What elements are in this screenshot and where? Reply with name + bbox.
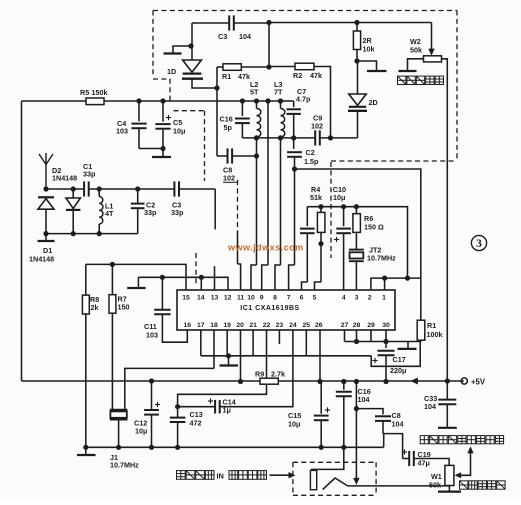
wire R2 right lead xyxy=(314,67,331,138)
potentiometer W1 xyxy=(445,465,454,485)
svg-text:17: 17 xyxy=(197,322,205,329)
jack sleeve contact xyxy=(310,470,316,489)
node C8 branch xyxy=(354,406,359,411)
wire R4 top lead xyxy=(320,207,322,213)
wire R6 bottom lead xyxy=(355,232,357,249)
wire R7 bottom lead xyxy=(111,313,113,410)
wire C3 right xyxy=(179,188,215,190)
resistor R8 xyxy=(82,295,89,314)
wire R8 top lead xyxy=(85,264,87,295)
wire gnd tie staircase xyxy=(371,342,420,367)
wire IF node line xyxy=(242,137,315,139)
wire pin2 feed xyxy=(371,278,421,290)
node ant-D1 xyxy=(43,186,48,191)
label volume potentiometer xyxy=(460,481,506,489)
svg-text:29: 29 xyxy=(367,322,375,329)
svg-text:C2: C2 xyxy=(306,148,315,157)
node pin1 xyxy=(382,276,387,281)
ground W1 xyxy=(438,491,461,493)
wire C1 right xyxy=(89,188,175,190)
wire C8 branch xyxy=(356,409,383,415)
ground C33 xyxy=(438,427,457,429)
resistor R2 47k xyxy=(295,63,314,69)
node pin20-5V xyxy=(238,379,243,384)
wire pin14-12 net xyxy=(138,277,228,290)
node D1 gnd xyxy=(43,231,48,236)
wire C5 top lead xyxy=(162,101,164,122)
svg-text:100k: 100k xyxy=(427,330,443,339)
capacitor C5 xyxy=(155,124,170,129)
capacitor C15 xyxy=(314,416,329,421)
wire rail gnd stub xyxy=(85,447,87,454)
inductor L1 xyxy=(99,197,103,225)
capacitor C16 104 xyxy=(336,392,352,397)
wire pin17 stub xyxy=(200,330,202,356)
plus C19 xyxy=(402,449,407,454)
wire C10 top lead xyxy=(343,207,345,227)
wire pin22-C13 xyxy=(178,330,267,407)
wire mid column top xyxy=(267,101,269,138)
node C8-L2 xyxy=(254,153,259,158)
wire C19 right lead xyxy=(414,459,449,466)
wire C14 left lead xyxy=(178,406,216,408)
node gnd tie xyxy=(226,353,231,358)
ground C4C5 xyxy=(152,156,171,158)
wire gnd tie xyxy=(201,355,371,357)
svg-text:10k: 10k xyxy=(363,45,375,54)
wire 2D top lead xyxy=(357,61,359,94)
wire C9 right lead xyxy=(320,137,358,139)
node R1-R2 xyxy=(266,64,271,69)
wire C19 left lead xyxy=(403,458,410,460)
arrow W1 wiper xyxy=(455,472,462,478)
wire open hook stub xyxy=(137,277,139,287)
resistor R5 xyxy=(86,98,104,105)
svg-text:104: 104 xyxy=(392,420,404,429)
arrow to audio amp xyxy=(467,446,473,453)
node R4 bottom xyxy=(318,241,323,246)
wire W2 left lead xyxy=(408,59,424,70)
crystal J1 xyxy=(110,410,128,420)
svg-text:21: 21 xyxy=(249,322,257,329)
svg-text:5p: 5p xyxy=(224,123,233,132)
svg-text:R1: R1 xyxy=(222,72,231,81)
wire mid column xyxy=(267,138,269,265)
varactor 2D plate xyxy=(348,110,367,112)
capacitor C13 xyxy=(170,418,186,422)
wire W1 bottom lead xyxy=(448,486,450,492)
capacitor at pin6 xyxy=(300,229,315,234)
wire R6 top lead xyxy=(355,207,357,214)
dashed box1 left jog xyxy=(153,79,170,101)
plus C17 xyxy=(372,358,377,363)
svg-text:R9: R9 xyxy=(255,370,264,379)
node C16b top xyxy=(341,379,346,384)
wire pin23 stub xyxy=(278,330,280,344)
wire audio column xyxy=(355,382,357,409)
wire pin13 stub xyxy=(214,266,216,290)
wire 2D bottom lead xyxy=(357,111,359,138)
wire R1 100k bottom lead xyxy=(420,340,422,341)
node L1 bottom xyxy=(97,231,102,236)
inductor L2 xyxy=(257,108,261,137)
capacitor C14 xyxy=(215,400,220,414)
node C3-2R rail xyxy=(266,20,271,25)
wire C16 left column xyxy=(237,231,239,264)
wire C3 left lead xyxy=(192,22,229,24)
wire top rail xyxy=(104,100,281,102)
node 2R-2D xyxy=(354,58,359,63)
wire pins2730 tie xyxy=(345,341,422,343)
ground tie xyxy=(220,364,239,366)
wire C13 top lead xyxy=(177,407,179,418)
wire pin8 jog xyxy=(275,265,281,290)
svg-text:7T: 7T xyxy=(274,88,283,97)
wire pin7 column xyxy=(294,169,296,265)
node D2 bottom xyxy=(71,231,76,236)
wire C5 bottom lead xyxy=(162,129,164,149)
dashed box1 top edge xyxy=(153,10,457,12)
node C11 top xyxy=(160,275,165,280)
wire D1 bottom lead xyxy=(45,209,47,233)
node rail gnd xyxy=(83,445,88,450)
node J1 gnd xyxy=(116,445,121,450)
node rail-mid xyxy=(265,98,270,103)
dashed box1 bottom edge xyxy=(331,160,457,162)
svg-text:1.5p: 1.5p xyxy=(304,157,319,166)
capacitor C11 xyxy=(154,310,170,315)
ground main xyxy=(77,454,96,456)
svg-text:4T: 4T xyxy=(105,209,114,218)
node L2 bottom xyxy=(254,135,259,140)
wire osc top rail xyxy=(269,22,432,24)
svg-text:24: 24 xyxy=(289,322,297,329)
wire D2 bottom lead xyxy=(72,211,74,234)
ground D1 xyxy=(38,240,55,242)
node L3 bottom xyxy=(278,135,283,140)
node C12 gnd xyxy=(149,445,154,450)
svg-text:33p: 33p xyxy=(144,208,157,217)
svg-text:5: 5 xyxy=(313,295,317,302)
varactor 1D plate xyxy=(182,77,203,79)
plus C15 xyxy=(325,407,330,412)
arrow jack contact xyxy=(353,478,359,485)
svg-text:10.7MHz: 10.7MHz xyxy=(367,254,396,263)
svg-text:1D: 1D xyxy=(167,67,176,76)
wire cap6 bottom lead xyxy=(306,233,308,282)
wire C8 bottom lead xyxy=(382,421,384,434)
svg-text:102: 102 xyxy=(223,174,235,183)
wire J1 bottom lead xyxy=(118,420,120,448)
svg-text:33p: 33p xyxy=(83,170,96,179)
wire L3 column xyxy=(280,138,282,265)
svg-text:27: 27 xyxy=(341,322,349,329)
wire pin24-C14 xyxy=(220,330,293,407)
svg-text:1μ: 1μ xyxy=(223,406,231,415)
svg-text:1: 1 xyxy=(382,295,386,302)
wire pin28 stub xyxy=(356,330,358,342)
wire C16b bottom lead xyxy=(343,396,345,447)
arrow 5V flow xyxy=(411,378,418,385)
node pin30 xyxy=(383,339,388,344)
open terminal 2R xyxy=(367,70,387,72)
resistor R6 xyxy=(353,214,361,233)
arrow W2 wiper xyxy=(428,49,434,56)
svg-text:33p: 33p xyxy=(171,208,184,217)
svg-text:2D: 2D xyxy=(369,98,378,107)
node rail-C4 xyxy=(136,98,141,103)
capacitor C8 104 xyxy=(375,416,391,421)
capacitor C4 xyxy=(131,124,146,129)
wire C4 bottom lead xyxy=(138,128,140,148)
wire jack sleeve feed xyxy=(311,447,344,469)
diode D2 xyxy=(66,198,80,210)
wire C11 to pin16 xyxy=(162,314,187,342)
wire tie gnd stub xyxy=(407,342,409,349)
wire C8 left lead xyxy=(217,155,227,157)
wire audio column lower xyxy=(355,409,357,479)
wire pin30 stub xyxy=(385,330,387,342)
svg-text:7: 7 xyxy=(287,295,291,302)
dashed box2 right edge xyxy=(330,162,332,258)
node pin14 xyxy=(199,275,204,280)
wire C12 bottom lead xyxy=(151,415,153,448)
svg-text:13: 13 xyxy=(211,295,219,302)
wire D2 top lead xyxy=(72,189,74,198)
open terminal 1D xyxy=(164,52,182,54)
dashed box2 left edge xyxy=(204,111,206,181)
svg-text:+5V: +5V xyxy=(471,377,486,386)
wire C15 top lead xyxy=(320,382,322,414)
wire pin10 jog xyxy=(251,265,257,290)
wire pin27 stub xyxy=(344,330,346,342)
wire R7 top lead xyxy=(111,264,113,294)
potentiometer W2 xyxy=(424,56,442,62)
wire det node line xyxy=(307,207,407,278)
label to audio amplifier xyxy=(420,436,503,444)
wire R5 left lead xyxy=(22,100,87,102)
wire C4 top lead xyxy=(138,101,140,121)
capacitor C1 xyxy=(84,181,89,196)
svg-text:C17: C17 xyxy=(393,355,406,364)
wire C16 top lead xyxy=(241,101,243,116)
capacitor C7 xyxy=(287,109,301,114)
node R6 top xyxy=(354,204,359,209)
svg-text:14: 14 xyxy=(197,295,205,302)
wire R1 left lead xyxy=(217,66,223,68)
wire R2 left lead xyxy=(269,66,295,68)
dashed jack box top xyxy=(293,461,376,463)
node C1-L1 xyxy=(97,186,102,191)
svg-text:26: 26 xyxy=(315,322,323,329)
svg-text:20: 20 xyxy=(236,322,244,329)
capacitor C19 xyxy=(409,451,414,466)
svg-text:10.7MHz: 10.7MHz xyxy=(110,461,139,470)
svg-text:47k: 47k xyxy=(310,71,322,80)
node C10 top xyxy=(341,204,346,209)
svg-text:102: 102 xyxy=(311,122,323,131)
wire bottom rail xyxy=(86,446,384,448)
wire C10-pin4 column xyxy=(343,233,345,290)
svg-text:150k: 150k xyxy=(92,88,108,97)
node rail-2R xyxy=(354,20,359,25)
wire pin29 stub xyxy=(370,330,372,342)
terminal +5V xyxy=(461,378,467,384)
wire pin7 jog xyxy=(289,265,295,290)
dashed box1 right edge xyxy=(456,11,458,162)
capacitor C2 1.5p xyxy=(287,152,302,157)
wire C13 bottom lead xyxy=(177,422,179,447)
crystal JT2 xyxy=(349,250,364,262)
dashed box2 top edge xyxy=(174,110,205,112)
wire C3 right lead xyxy=(234,22,269,24)
wire pin1 stub xyxy=(384,278,386,290)
svg-text:2: 2 xyxy=(368,295,372,302)
capacitor C3 33p xyxy=(174,181,179,196)
svg-text:472: 472 xyxy=(190,419,202,428)
wire pin18 column xyxy=(213,330,215,368)
wire IN arrow line xyxy=(270,474,289,476)
wire 1D column top xyxy=(191,23,193,46)
svg-text:4: 4 xyxy=(342,295,346,302)
svg-text:47k: 47k xyxy=(238,72,250,81)
wire C16 bottom lead xyxy=(241,123,243,138)
wire L2 top lead xyxy=(256,101,258,109)
wire 1D to node xyxy=(192,79,217,88)
svg-text:2k: 2k xyxy=(91,303,99,312)
svg-text:12: 12 xyxy=(224,295,232,302)
open terminal IF xyxy=(127,287,145,289)
svg-text:R1: R1 xyxy=(427,321,436,330)
wire C2b top lead xyxy=(293,138,295,149)
svg-text:IC1 CXA1619BS: IC1 CXA1619BS xyxy=(240,305,299,312)
wire 5V line left xyxy=(22,380,261,382)
wire AFC line xyxy=(295,169,421,278)
wire R4 bottom lead xyxy=(320,232,322,243)
varactor 2D xyxy=(349,94,366,107)
svg-text:4.7p: 4.7p xyxy=(296,95,311,104)
svg-text:104: 104 xyxy=(424,402,436,411)
arrow line input xyxy=(289,472,296,478)
svg-text:2.7k: 2.7k xyxy=(271,370,285,379)
node C12 top xyxy=(149,378,154,383)
inductor L3 xyxy=(281,108,285,137)
wire pin6 jog xyxy=(302,282,308,290)
wire C2 top lead xyxy=(137,189,139,204)
resistor R4 51k xyxy=(317,212,325,232)
wire C33 top lead xyxy=(446,381,448,399)
wire 2R top lead xyxy=(356,23,358,32)
resistor R1 100k xyxy=(417,320,425,340)
svg-text:5T: 5T xyxy=(250,88,259,97)
IC U1 CXA1619BS body xyxy=(177,290,395,330)
wire C12 top lead xyxy=(151,381,153,410)
node C17-5V xyxy=(383,379,388,384)
svg-text:1N4148: 1N4148 xyxy=(52,174,77,183)
wire osc column xyxy=(268,23,270,68)
wire R1 right lead xyxy=(241,66,269,68)
svg-text:R2: R2 xyxy=(293,71,302,80)
node rail-C5 xyxy=(160,98,165,103)
svg-text:104: 104 xyxy=(358,395,370,404)
node jack arrow top xyxy=(354,379,359,384)
resistor R7 xyxy=(109,295,116,314)
svg-text:3: 3 xyxy=(355,295,359,302)
svg-text:www.jdwxs.com: www.jdwxs.com xyxy=(227,243,304,253)
node pin26-5V xyxy=(317,379,322,384)
capacitor C9 xyxy=(315,130,320,145)
svg-text:IN: IN xyxy=(217,472,224,481)
svg-text:103: 103 xyxy=(116,127,128,136)
capacitor C12 xyxy=(144,410,159,415)
svg-text:47μ: 47μ xyxy=(418,459,430,468)
node C5 bottom xyxy=(160,146,165,151)
plus C5 xyxy=(166,115,171,120)
wire C7 top lead xyxy=(293,101,295,107)
svg-text:150: 150 xyxy=(118,303,130,312)
wire C2 bottom lead xyxy=(137,208,139,233)
dashed jack box bottom xyxy=(293,494,376,496)
node 1D-R1 xyxy=(214,85,219,90)
wire R1col lower xyxy=(216,88,218,156)
circled 3 figure number xyxy=(471,235,486,250)
node C2b xyxy=(292,166,297,171)
svg-text:25: 25 xyxy=(303,322,311,329)
wire C17 bottom lead xyxy=(385,356,387,382)
dashed box1 left edge xyxy=(152,11,154,76)
dashed jack box left xyxy=(292,462,294,495)
wire L2 column xyxy=(256,138,258,265)
wire C7 bottom lead xyxy=(293,114,295,138)
svg-text:22: 22 xyxy=(263,322,271,329)
node 1D top xyxy=(188,43,193,48)
svg-text:11: 11 xyxy=(237,295,244,302)
svg-text:220μ: 220μ xyxy=(390,366,406,375)
wire pin26 column xyxy=(319,330,321,382)
node C16b gnd xyxy=(341,445,346,450)
node C13-C14 xyxy=(175,404,180,409)
label tuning potentiometer xyxy=(398,76,444,84)
svg-text:50k: 50k xyxy=(429,481,441,490)
wire pin15 net xyxy=(86,264,186,290)
wire gnd tie stub xyxy=(228,356,230,365)
antenna xyxy=(39,153,53,189)
dashed box2 left lower edge xyxy=(195,253,197,285)
resistor R9 xyxy=(260,378,278,384)
svg-text:16: 16 xyxy=(184,322,192,329)
diode D1 xyxy=(38,197,54,209)
svg-text:3: 3 xyxy=(476,238,482,250)
wire antenna node xyxy=(46,188,84,190)
wire gnd stub C4C5 xyxy=(162,149,164,157)
wire C33 bottom lead xyxy=(446,404,448,427)
label line input cjk2 xyxy=(229,471,267,480)
wire pin5 jog xyxy=(315,282,322,290)
svg-text:C3: C3 xyxy=(218,32,227,41)
node C2 top xyxy=(135,186,140,191)
varactor 1D xyxy=(183,60,202,74)
svg-text:19: 19 xyxy=(223,322,231,329)
node C7 bottom xyxy=(291,135,296,140)
dashed box2 partition xyxy=(237,180,239,231)
node D2 top xyxy=(71,186,76,191)
svg-text:28: 28 xyxy=(353,322,361,329)
wire C2b bottom lead xyxy=(294,158,296,170)
node det-pin12 wire xyxy=(405,276,410,281)
node 5V-W2 xyxy=(445,378,450,383)
wire L3 top lead xyxy=(280,101,282,109)
resistor 2R 10k xyxy=(353,31,360,50)
